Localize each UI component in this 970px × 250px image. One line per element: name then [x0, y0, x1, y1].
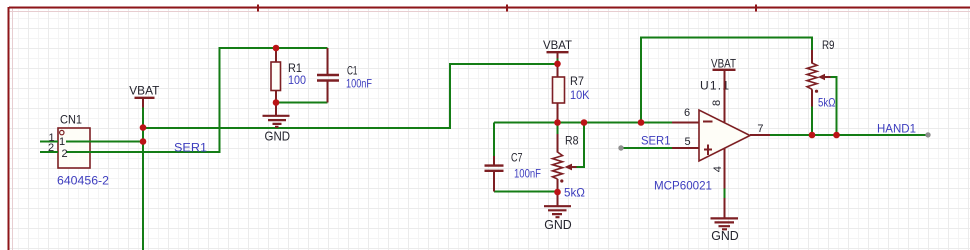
wire VBAT-left vertical down off-sheet — [142, 107, 144, 250]
connector CN1 — [57, 112, 109, 187]
net label SER1 (left) — [174, 140, 207, 154]
junction at R8 bottom / C7 / GND — [554, 189, 561, 196]
wire output to HAND1 — [770, 134, 926, 136]
wire R8 wiper — [576, 123, 584, 168]
junction at R8 wiper / pin6 wire — [581, 119, 588, 126]
svg-text:2: 2 — [48, 142, 54, 154]
op-amp pin 7 — [750, 123, 770, 135]
svg-text:R7: R7 — [570, 74, 584, 88]
endpoint HAND1 — [925, 132, 930, 137]
op-amp U1.1 — [654, 78, 750, 192]
ground GND right — [711, 198, 739, 243]
svg-text:100nF: 100nF — [346, 76, 372, 90]
ground GND mid — [544, 192, 572, 232]
op-amp pin 8 — [711, 71, 725, 123]
svg-text:VBAT: VBAT — [711, 56, 737, 70]
svg-text:100: 100 — [288, 73, 306, 87]
svg-text:GND: GND — [265, 129, 291, 144]
svg-text:6: 6 — [684, 107, 690, 119]
wire VBAT mid stem lower — [557, 58, 559, 64]
svg-text:640456-2: 640456-2 — [57, 173, 109, 187]
CN1 pin name 1 (inside) — [59, 136, 65, 148]
wire CN1 pin2 stub — [40, 151, 58, 153]
wire R9 bottom to output — [811, 106, 813, 135]
svg-text:1: 1 — [59, 136, 65, 148]
svg-text:5: 5 — [684, 136, 690, 148]
junction at VBAT mid / R7 top — [554, 61, 561, 68]
capacitor C7 — [485, 150, 542, 191]
power port VBAT mid — [543, 38, 573, 58]
wire CN1 pin1 to VBAT node — [66, 141, 143, 143]
power port VBAT left — [129, 83, 160, 107]
svg-text:GND: GND — [711, 228, 739, 243]
svg-text:R8: R8 — [565, 134, 579, 148]
resistor R1 — [271, 48, 306, 103]
CN1 pin name 2 (inside) — [61, 148, 67, 160]
junction at R7 bottom / R8 top — [554, 119, 561, 126]
svg-text:8: 8 — [711, 100, 723, 106]
capacitor C1 — [317, 48, 372, 103]
svg-text:7: 7 — [757, 123, 763, 135]
svg-text:10K: 10K — [570, 88, 590, 102]
wire VBAT node to R7/VBAT mid — [143, 64, 558, 128]
wire R1 bottom to C1 bottom — [276, 102, 328, 104]
junction at R1 top — [273, 45, 280, 52]
CN1 pin number 2 (outside) — [48, 142, 54, 154]
svg-text:CN1: CN1 — [60, 112, 82, 126]
potentiometer R8 — [553, 134, 586, 200]
wire op-amp pin4 to GND — [724, 188, 726, 198]
net label HAND1 — [877, 121, 916, 135]
op-amp pin 4 — [712, 149, 725, 189]
svg-text:R9: R9 — [822, 38, 835, 52]
wire C7 top branch — [493, 123, 495, 157]
resistor R7 — [553, 64, 590, 123]
wire CN1 pin1 stub — [40, 141, 58, 143]
wire SER1 net: CN1 pin2 up to top rail and to R1/C1 — [66, 48, 328, 152]
svg-text:4: 4 — [712, 166, 724, 172]
wire C7 bottom to GND node — [494, 191, 558, 193]
wire feedback from pin6 node to R9 — [641, 38, 812, 123]
svg-text:SER1: SER1 — [641, 134, 671, 148]
junction at feedback / pin6 wire — [638, 119, 645, 126]
junction at R9 bottom / output — [809, 132, 816, 139]
wire R7 bottom node to op-amp pin6 — [494, 122, 672, 124]
op-amp pin 6 — [672, 107, 699, 123]
wire SER1 stub to op-amp pin5 — [622, 147, 672, 149]
CN1 pin number 1 (outside) — [48, 132, 54, 144]
svg-text:SER1: SER1 — [174, 140, 207, 154]
power port VBAT right — [711, 56, 737, 70]
junction at R9 wiper / output — [833, 132, 840, 139]
wire R9 wiper down to output — [830, 77, 837, 135]
ground GND left — [263, 103, 291, 144]
svg-text:HAND1: HAND1 — [877, 121, 916, 135]
no-connect endpoint SER1 stub — [618, 145, 623, 150]
svg-text:100nF: 100nF — [514, 167, 541, 181]
svg-text:5kΩ: 5kΩ — [564, 186, 585, 200]
svg-text:2: 2 — [61, 148, 67, 160]
potentiometer R9 — [807, 38, 836, 109]
net label SER1 (right) — [641, 134, 671, 148]
svg-text:VBAT: VBAT — [129, 83, 160, 97]
svg-text:C1: C1 — [347, 64, 358, 78]
svg-text:C7: C7 — [511, 150, 523, 164]
junction at CN1 pin1 / VBAT-left — [140, 138, 147, 145]
svg-text:MCP60021: MCP60021 — [654, 179, 712, 193]
wire R8 top — [557, 123, 559, 135]
op-amp pin 5 — [672, 136, 699, 148]
junction at R1 bottom / GND — [273, 99, 280, 106]
junction at VBAT-left / long wire — [140, 124, 147, 131]
svg-text:GND: GND — [544, 217, 572, 232]
svg-text:5kΩ: 5kΩ — [818, 96, 836, 110]
svg-text:VBAT: VBAT — [543, 38, 573, 52]
